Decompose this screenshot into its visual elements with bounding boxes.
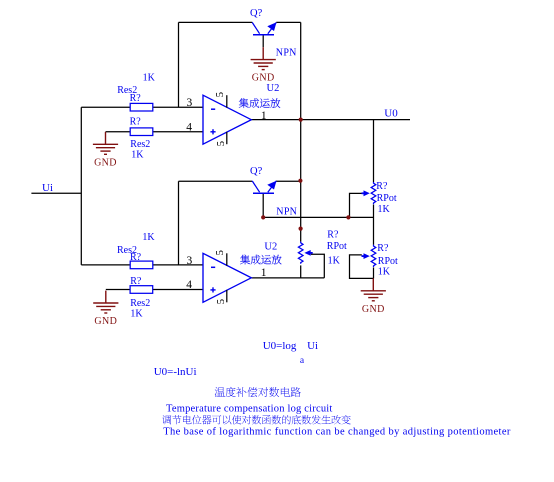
svg-text:Q?: Q? [250,8,263,19]
svg-text:U2: U2 [267,83,280,94]
svg-text:GND: GND [252,73,275,84]
label U1 comment 集成运放 [239,98,280,108]
potentiometer RP2 (R? RPot 1K, lower right) [362,245,376,267]
svg-text:Res2: Res2 [130,139,150,150]
transistor Q2 (Q? NPN, lower) [252,181,276,193]
junction (Q2 base rail) [261,215,265,219]
label U2 comment 集成运放 [240,255,281,265]
wire (RPot mid bottom lead) [300,265,302,278]
note 调节电位器... [162,415,351,424]
wire (bus to R3) [81,264,130,266]
svg-text:R?: R? [130,93,142,104]
wire (Ui vertical bus) [80,107,82,265]
svg-text:Ui: Ui [307,340,318,352]
svg-text:GND: GND [94,157,117,168]
svg-text:RPot: RPot [378,256,398,267]
svg-text:1K: 1K [143,72,156,83]
svg-text:U0: U0 [384,108,398,120]
wire (RPot1 bottom through rail to RPot2) [373,205,375,245]
note 温度补偿对数电路 [215,387,301,397]
svg-text:3: 3 [187,97,193,109]
wire (R3 to U2 pin 3) [153,264,203,266]
wire (Q2 emitter to vertical) [276,180,301,182]
svg-text:4: 4 [186,121,192,133]
ground (R2) [93,132,118,154]
wire (Q1 emitter to right vertical) [276,21,300,23]
svg-text:4: 4 [186,279,192,291]
resistor R1 (R? Res2 1K) [130,103,153,111]
wire (RPot mid wiper L) [311,254,325,278]
potentiometer RP3 (R? RPot 1K, mid) [298,242,312,264]
svg-text:1K: 1K [130,308,143,319]
svg-text:1K: 1K [328,256,341,267]
wire (to Q2 collector) [179,180,253,182]
resistor R3 (R? Res2 1K) [130,261,153,269]
wire (lower feedback vertical) [178,181,180,265]
wire (GND to R2) [106,131,131,133]
svg-text:5: 5 [216,141,227,146]
ground (R4) [93,291,118,313]
junction (Q2 emitter node) [298,179,302,183]
svg-text:U2: U2 [264,241,277,252]
wire (Q1 base stem) [262,35,264,48]
svg-text:NPN: NPN [276,207,297,218]
svg-text:GND: GND [94,316,117,327]
svg-text:R?: R? [130,276,142,287]
wire (left feedback vertical to pin 3 net) [178,22,180,107]
junction (vertical at RPot mid) [299,227,303,231]
wire (base rail to potentiometers) [263,216,373,218]
resistor R2 (R? Res2 1K) [130,128,153,136]
svg-text:5: 5 [215,92,226,97]
junction (U1 output node) [299,118,303,122]
svg-text:3: 3 [187,255,193,267]
wire (RPot2 wiper to bottom) [350,255,374,279]
svg-text:RPot: RPot [377,193,397,204]
wire (R2 to U1 pin 4) [153,131,203,133]
svg-text:Ui: Ui [42,182,53,194]
svg-text:U0=log: U0=log [263,340,297,352]
svg-text:1K: 1K [378,204,391,215]
svg-text:1: 1 [261,110,267,122]
svg-text:1K: 1K [142,232,155,243]
junction (RPot1 wiper on rail) [346,215,350,219]
svg-text:1: 1 [261,267,267,279]
svg-text:R?: R? [130,252,142,263]
svg-text:1K: 1K [131,150,144,161]
svg-text:Temperature compensation log c: Temperature compensation log circuit [166,403,333,414]
wire (RPot2 bottom lead) [373,267,375,278]
wire (U0 node down to RPot1) [373,120,375,182]
svg-text:R?: R? [376,181,388,192]
svg-text:R?: R? [130,117,142,128]
resistor R4 (R? Res2 1K) [130,286,153,294]
wire (GND to R4) [106,289,130,291]
svg-text:NPN: NPN [276,47,297,58]
wire (right vertical: emitter/output node down to RPot) [300,22,302,241]
svg-text:1K: 1K [378,267,391,278]
svg-text:GND: GND [362,304,385,315]
svg-text:The base of logarithmic functi: The base of logarithmic function can be … [163,427,511,438]
wire (U1 output to U0) [251,119,410,121]
ground (Q1 base) [251,47,276,69]
svg-text:RPot: RPot [327,241,347,252]
wire (RPot1 wiper L) [350,193,362,217]
transistor Q1 (Q? NPN, top) [252,22,276,34]
svg-text:5: 5 [216,299,227,304]
wire (Ui input stub) [31,192,81,194]
svg-text:R?: R? [377,243,389,254]
op-amp U2 (lower) [203,250,251,304]
wire (R1 to U1 pin 3) [153,106,203,108]
op-amp U1 (U2 top) [203,92,251,146]
potentiometer RP1 (R? RPot 1K, upper right) [362,182,376,204]
svg-text:5: 5 [215,250,226,255]
wire (Ui bus to R1) [81,106,130,108]
wire (U1 feedback top, to Q1 collector) [179,21,253,23]
svg-text:Q?: Q? [250,166,263,177]
wire (R4 to U2 pin 4) [153,289,203,291]
svg-text:U0=-lnUi: U0=-lnUi [154,366,197,378]
svg-text:R?: R? [327,230,339,241]
ground (RPot2) [361,278,386,300]
wire (Q2 base stem) [262,193,264,217]
svg-text:Res2: Res2 [130,298,150,309]
wire (U2 output) [251,277,324,279]
